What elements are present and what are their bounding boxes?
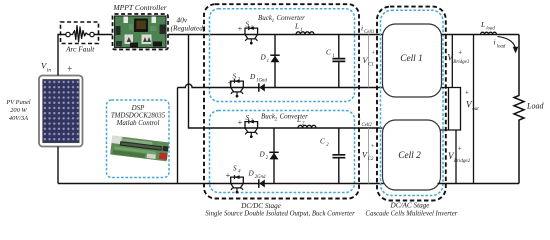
svg-text:TMDSDOCK28035: TMDSDOCK28035 <box>111 113 166 120</box>
wire load top rail <box>442 34 520 36</box>
svg-text:2: 2 <box>238 78 241 83</box>
MPPT PCB photo <box>115 16 167 48</box>
svg-text:1Gnd: 1Gnd <box>256 78 267 83</box>
DC/DC outer dashed box <box>204 4 359 198</box>
svg-text:+: + <box>67 64 73 74</box>
svg-text:out: out <box>472 107 479 112</box>
svg-text:Arc Fault: Arc Fault <box>65 45 95 54</box>
PV panel <box>39 76 83 147</box>
wire VBridge2 stem <box>455 130 457 184</box>
wire buck1 return vertical <box>177 88 179 184</box>
wire bottom right rail <box>438 183 520 185</box>
svg-text:load: load <box>497 44 506 49</box>
svg-text:S: S <box>233 164 237 172</box>
arc fault terminals <box>66 32 70 36</box>
svg-text:i: i <box>361 24 363 33</box>
svg-text:1: 1 <box>300 28 302 33</box>
resistor Load <box>514 35 524 184</box>
svg-text:Converter: Converter <box>277 14 306 22</box>
svg-text:1: 1 <box>272 19 274 24</box>
svg-text:(Regulated): (Regulated) <box>171 24 206 33</box>
svg-text:S: S <box>246 20 250 28</box>
svg-text:+: + <box>227 77 233 87</box>
svg-text:Cell1: Cell1 <box>364 30 374 35</box>
svg-text:C: C <box>320 138 325 146</box>
svg-text:i: i <box>494 38 496 47</box>
svg-text:D: D <box>260 54 267 62</box>
svg-text:D: D <box>248 170 255 178</box>
diode D2 (vertical) <box>273 128 275 184</box>
svg-text:2: 2 <box>326 143 329 148</box>
svg-text:S: S <box>233 72 237 80</box>
svg-text:2: 2 <box>275 117 278 122</box>
capacitor C2 <box>338 128 340 184</box>
svg-text:Cascade Cells Multilevel Inver: Cascade Cells Multilevel Inverter <box>366 211 458 218</box>
buck1 blue dashed box <box>210 9 355 102</box>
wire series link rectangle <box>441 88 461 131</box>
svg-text:4: 4 <box>238 170 241 175</box>
svg-text:1: 1 <box>251 26 253 31</box>
svg-text:+: + <box>371 50 375 57</box>
wire MPPT output rail <box>168 34 244 36</box>
buck1 title <box>258 14 305 24</box>
node VC2 measure line <box>368 128 370 184</box>
svg-text:i: i <box>359 117 361 126</box>
DSP box <box>107 100 170 178</box>
svg-text:D: D <box>249 73 256 81</box>
svg-text:Cell 2: Cell 2 <box>398 151 421 161</box>
node VC1 measure line <box>368 35 370 88</box>
svg-text:Cell2: Cell2 <box>362 123 373 128</box>
svg-text:Bridge1: Bridge1 <box>453 60 469 65</box>
svg-text:Buck: Buck <box>258 14 273 22</box>
arc fault box <box>61 22 99 44</box>
wire PV top <box>58 35 66 76</box>
svg-text:Converter: Converter <box>280 113 309 121</box>
svg-text:MPPT Controller: MPPT Controller <box>112 3 166 12</box>
svg-text:+: + <box>237 23 243 33</box>
svg-text:Cell 1: Cell 1 <box>400 54 422 64</box>
wire feed branch to buck2 <box>189 35 383 129</box>
svg-text:+: + <box>465 89 470 97</box>
node Vin label <box>41 61 73 74</box>
svg-text:C: C <box>326 49 331 57</box>
buck2 title <box>261 113 308 123</box>
svg-text:DSP: DSP <box>131 105 145 112</box>
svg-text:Single Source Double Isolated: Single Source Double Isolated Output, Bu… <box>205 211 355 218</box>
wire buck1 bottom rail with hop <box>178 84 383 87</box>
svg-text:+: + <box>457 144 462 152</box>
svg-text:2Gnd: 2Gnd <box>255 175 266 180</box>
svg-text:DC/AC Stage: DC/AC Stage <box>390 202 431 210</box>
svg-text:in: in <box>47 67 52 73</box>
svg-text:+: + <box>225 170 231 180</box>
buck2 blue dashed box <box>210 111 355 193</box>
svg-text:L: L <box>480 20 485 29</box>
svg-text:+: + <box>371 143 375 150</box>
wire buck1 top rail <box>244 34 382 36</box>
svg-text:DC/DC Stage: DC/DC Stage <box>240 202 282 210</box>
svg-text:1: 1 <box>332 54 334 59</box>
PV panel label <box>5 99 30 122</box>
wire PV bottom <box>57 147 59 184</box>
svg-text:Buck: Buck <box>261 113 276 121</box>
svg-text:Load: Load <box>526 102 544 111</box>
transistor S1 <box>245 26 258 44</box>
transistor S4 <box>231 175 244 193</box>
diode D1 (vertical) <box>274 35 276 88</box>
DSP label <box>111 105 166 127</box>
wire arc fault to MPPT <box>94 34 112 36</box>
svg-text:+: + <box>458 48 463 56</box>
MPPT controller box <box>113 14 169 50</box>
svg-text:Matlab Control: Matlab Control <box>116 120 160 127</box>
svg-text:Bridge2: Bridge2 <box>454 159 471 164</box>
svg-text:40V/3A: 40V/3A <box>9 115 28 122</box>
cell 1 <box>383 24 442 97</box>
diode D1Gnd (horizontal) <box>258 83 260 92</box>
svg-text:2: 2 <box>266 156 269 161</box>
svg-text:PV Panel: PV Panel <box>5 99 30 106</box>
svg-text:C2: C2 <box>368 157 374 162</box>
svg-text:D: D <box>259 151 266 159</box>
current iload arrow <box>498 37 516 49</box>
svg-text:load: load <box>486 26 495 31</box>
wire VBridge1 stem <box>451 35 453 88</box>
capacitor C1 <box>338 35 340 88</box>
DSP PCB photo <box>110 136 169 162</box>
svg-text:200 W: 200 W <box>10 107 27 114</box>
wire bottom bus <box>58 183 384 185</box>
inductor L2 <box>298 125 316 128</box>
svg-text:1: 1 <box>267 59 269 64</box>
svg-text:L: L <box>296 116 301 124</box>
svg-text:S: S <box>246 114 250 122</box>
arc fault spark <box>70 26 90 42</box>
DC/AC blue dashed box <box>381 10 444 195</box>
transistor S2 <box>231 79 244 97</box>
diode D2Gnd (horizontal) <box>258 179 260 188</box>
inductor L1 <box>296 32 314 35</box>
wire Vout line <box>473 35 475 184</box>
transistor S3 <box>245 120 258 138</box>
svg-text:+: + <box>237 117 243 127</box>
cell 2 <box>383 120 441 190</box>
svg-text:L: L <box>294 23 299 31</box>
svg-text:C1: C1 <box>368 62 374 67</box>
inductor Lload <box>481 32 497 34</box>
DC/AC outer dashed box <box>377 7 446 201</box>
